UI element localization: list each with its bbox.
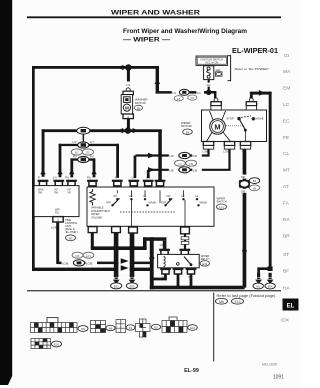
arrow right floating 2 [121,265,129,270]
arrow up on OR wire [242,246,248,252]
svg-text:WIPER AND WASHER: WIPER AND WASHER [111,9,201,16]
wire LG/B drop to switch [147,170,150,178]
svg-text:OR: OR [241,189,245,193]
svg-text:MEL169D: MEL169D [262,363,278,367]
wiper motor box [202,110,267,142]
svg-text:OFF: OFF [106,201,112,205]
wire LG/R from motor [136,149,209,155]
wire: L2 L/Y link [59,144,119,146]
wire B bus over motor [250,92,272,95]
washer motor bottom connector 2 [123,114,133,119]
grid F oval label [52,341,62,347]
inline connector marks on B/R wire [181,237,189,240]
wire: ACC vertical feed upper [156,66,159,93]
stop contact [237,117,240,120]
svg-text:OR: OR [241,175,245,179]
wire: PU left drop [70,158,73,177]
svg-text:E8: E8 [137,106,141,110]
label L/B left [169,167,179,172]
svg-text:GI: GI [284,53,289,59]
wire relay B down [177,274,180,287]
resistor zigzag variable volume [90,189,95,206]
wire: top feed bus [32,66,159,69]
wire: PU right drop [93,158,96,177]
twin ref ovals between [175,160,186,166]
ground arrow B right [267,273,274,284]
connector into TCU 3 [66,180,77,186]
switch group 1 contacts [106,190,156,226]
wire washer motor to lower bus [127,119,130,131]
wiper switch ref oval E15 [217,204,227,209]
svg-text:L/B: L/B [193,169,197,173]
node bus1 dot b [129,245,135,251]
wire relay OR down [190,274,193,287]
arrow right on LB line [148,167,155,172]
svg-text:LG: LG [127,83,131,87]
inline connector on OR wire [239,180,250,188]
label L/B right [192,167,202,172]
svg-text:VR: VR [68,191,72,194]
white gap between ground drops [119,253,130,274]
svg-text:STOP: STOP [226,117,234,121]
svg-text:OFF: OFF [161,201,167,205]
node: washer junction lower [125,127,131,133]
svg-text:PU: PU [73,155,77,159]
svg-text:M3: M3 [76,254,80,258]
node LG junction [206,90,212,96]
svg-text:HI: HI [196,194,199,198]
label L/R left [169,153,179,158]
dotted link motor to arm [226,125,243,127]
relay bottom connector 2 [173,268,184,274]
svg-text:M6: M6 [109,327,113,331]
svg-text:L/Y: L/Y [72,140,76,144]
motor ref oval E8 [183,129,193,134]
relay contact circle [177,263,180,266]
svg-text:L/B: L/B [169,169,173,173]
svg-text:PU: PU [90,155,94,159]
node bus1 dot a [113,245,119,251]
svg-text:M5: M5 [189,162,193,166]
wire relay LGB drop [163,241,167,249]
svg-text:Refer to “EL-POWER”.: Refer to “EL-POWER”. [235,67,271,71]
svg-text:M3: M3 [81,327,85,331]
svg-text:EM: EM [283,86,290,92]
grid E dark pins [170,321,174,327]
twin ref ovals below L2 [71,149,82,155]
motor bottom connector LG/R [203,142,213,146]
jog up from bus1 [143,237,147,250]
wire bus1 horizontal [91,246,147,250]
motor bottom connector LG/B [224,142,234,146]
link stub between L1 and L2 ovals [83,135,85,143]
svg-text:FA: FA [283,201,290,207]
ground ref oval a [111,283,122,289]
wire TCU LGB vertical [56,222,59,264]
arrow left on top bus [117,65,123,70]
svg-text:LC: LC [283,102,290,108]
svg-text:1091: 1091 [273,375,284,381]
move contact [252,117,255,120]
wiper motor M symbol [210,119,226,135]
twin ref ovals below LG bus [174,96,183,101]
grid C oval label [126,325,135,330]
pinout cross D [136,319,151,337]
motor brushes [210,111,226,121]
grid B oval label [106,325,115,330]
arrow right floating 1 [121,258,129,263]
wire V1 vertical [150,237,154,289]
ref ovals right of OR connector [249,178,259,184]
wire LG/B from motor [150,149,230,170]
svg-text:M6: M6 [219,300,224,304]
svg-text:CL: CL [283,151,289,157]
grid E oval label [188,325,198,331]
switch bottom connector a [112,227,121,233]
svg-text:E03: E03 [130,284,135,288]
switch bottom connector volume [88,227,97,233]
svg-text:M4: M4 [253,186,257,190]
label L/R right [192,153,202,158]
cross D dark pin [140,324,143,328]
wire: switch feed vertical lower [158,130,162,183]
svg-text:B: B [250,96,252,100]
time control unit box [34,186,79,217]
splice oval on PU link [78,156,89,162]
splice oval on LG bus [179,89,189,95]
arrow up wire2 [57,170,63,175]
svg-text:SWITCH: SWITCH [217,200,227,204]
motor bottom connector OR [240,142,250,146]
connector switch L/B [143,180,154,186]
wire B down right side [269,92,272,271]
arrow up wire3 [69,170,75,175]
TCU bottom connector 1 [53,217,63,222]
wire: washer motor drop [127,68,130,82]
wiper relay top connector L [159,249,170,255]
svg-text:L/R: L/R [193,154,197,158]
svg-text:— WIPER —: — WIPER — [123,37,171,44]
svg-text:E8: E8 [186,130,190,134]
svg-text:MOVE: MOVE [255,117,263,121]
svg-text:MOTOR: MOTOR [181,124,192,128]
arrow right on L1 [133,128,139,133]
connector switch ACC [155,180,166,186]
connector into TCU 2 [53,180,64,186]
pinout grid E [162,321,187,333]
label LG/B left on wire [62,261,74,265]
foldout note divider rule [213,293,214,362]
washer motor body [121,95,132,114]
wire: L1 left drop to WAS SW [42,129,45,177]
svg-text:LG: LG [207,83,211,87]
node B corner dot [268,266,273,271]
pinout grid E tab [169,317,177,321]
splice oval on LB [179,167,190,173]
svg-text:LO: LO [181,194,184,198]
washer motor ref oval E8 [134,105,142,110]
ground symbol b [129,273,136,284]
svg-text:M4: M4 [191,97,195,100]
switch group 1 dashed line [120,211,176,213]
relay coil [164,257,166,267]
wire: bottom ground bus left part2 [129,268,152,271]
svg-text:WASH: WASH [149,201,157,205]
connector switch L/Y [112,180,123,186]
arrow up on ACC vertical [155,78,161,84]
arrow left on L1 [117,128,123,133]
svg-text:E13: E13 [190,326,195,330]
splice oval on L1 [77,127,90,134]
bottom separator line [27,290,281,291]
ignition switch box [196,56,228,65]
node: washer junction top [125,64,131,70]
svg-text:MA: MA [283,69,291,75]
margin tab EL black box [283,299,299,311]
svg-text:VOLUME: VOLUME [91,215,102,219]
svg-text:Refer to last page (Foldout pa: Refer to last page (Foldout page). [217,294,277,298]
svg-text:M: M [214,123,220,132]
svg-text:EC: EC [283,119,290,125]
grid A dark pins [38,328,42,333]
svg-text:M: M [125,106,129,111]
wire: PU link [71,158,96,160]
wire: L2 left drop [59,144,62,178]
jog top horizontal to relay [143,237,166,241]
svg-text:“EL-TIME”): “EL-TIME”) [65,230,78,234]
svg-text:LG/B: LG/B [86,262,93,266]
svg-text:SW: SW [38,191,43,194]
svg-text:IDX: IDX [281,318,290,324]
arrow up on V1 [149,253,155,259]
foldout note connector oval E13 [232,298,244,304]
arm down wire [244,131,246,142]
svg-text:1: 1 [57,218,59,222]
connector into TCU 1 [38,180,49,186]
splice oval on LGB wire [73,260,84,266]
svg-text:AT: AT [283,184,289,190]
splice oval on L2 [78,142,89,148]
ground ref oval b [126,283,137,289]
switch bottom connector c [181,227,190,234]
svg-text:F: F [159,176,161,180]
svg-text:F2: F2 [178,162,182,166]
wire: distribution bus L1 [42,129,162,132]
svg-text:HA: HA [283,286,290,292]
label LG left [172,90,180,94]
wire ground drop b [130,233,135,277]
svg-text:RA: RA [283,217,290,223]
motor top connector L pin [214,98,218,102]
dashed to MOVE [241,116,251,118]
svg-text:L/Y: L/Y [115,176,119,180]
svg-text:B3: B3 [253,179,257,183]
bracket [228,56,231,81]
wire fuse down [208,80,210,83]
fuse ref box [215,72,222,76]
scan black edge strip [0,0,12,376]
svg-text:ST: ST [283,252,289,258]
relay bottom connector 3 [186,268,197,274]
label OR lower [240,189,249,193]
ground arrow B left [255,273,262,284]
svg-text:E04: E04 [268,285,273,289]
wire: L2 right drop to switch [116,144,119,178]
arrow up wire4 [91,170,97,175]
svg-text:FE: FE [283,135,289,141]
svg-text:P: P [38,176,40,180]
wire volume drop [91,233,94,249]
arrow up wire1 [40,170,46,175]
wire: bottom ground bus left [32,268,115,271]
svg-text:E15: E15 [219,205,224,209]
splice oval on LR [179,152,190,158]
svg-text:MT: MT [283,168,290,174]
switch group 2 contacts [160,190,207,226]
label OR upper [240,175,249,179]
svg-text:MOTOR: MOTOR [135,101,146,105]
svg-text:INT: INT [113,194,118,198]
svg-text:SW: SW [54,191,59,194]
svg-text:L/R: L/R [169,154,173,158]
svg-text:E19: E19 [202,262,207,266]
svg-text:BF: BF [283,269,289,275]
relay switch arm [184,257,191,265]
svg-text:RLY: RLY [55,211,60,214]
wire TCU LGB horizontal [57,262,152,265]
svg-text:L/Y: L/Y [90,140,94,144]
svg-text:BR: BR [283,234,290,240]
svg-text:EL-WIPER-01: EL-WIPER-01 [232,48,278,55]
svg-text:RELAY: RELAY [201,257,210,261]
svg-text:LG/B: LG/B [160,243,166,247]
arrow right on B bus [259,90,265,96]
svg-text:M1: M1 [256,285,260,289]
switch bottom connector b [129,227,138,233]
svg-text:E13: E13 [86,254,91,258]
svg-text:LO: LO [129,194,132,198]
wire LG bus left of junction [156,91,207,94]
grid A oval label [78,326,88,332]
svg-text:WASH: WASH [200,201,208,205]
motor top connector R pin [250,95,253,98]
pinout grid A tab [47,318,58,323]
svg-text:EL-99: EL-99 [184,368,199,374]
pinout grid C [116,320,126,333]
wire ground drop a [114,233,119,278]
wire B corner to left ground [259,269,269,276]
arrow right on LR line [148,153,155,158]
cross D oval label [151,324,160,329]
svg-text:LG: LG [197,91,201,95]
connector switch L/R [128,180,139,186]
wire switch c drop to relay [184,234,186,249]
svg-text:L/Y: L/Y [53,176,57,180]
grid B dark pin [96,325,101,329]
washer motor top connector [126,88,130,92]
wire OR from motor down [243,149,247,288]
ground oval M1 [253,283,263,289]
wire: left border bus [32,66,35,271]
svg-text:ACC or ON: ACC or ON [205,60,218,64]
svg-text:EL: EL [287,304,295,310]
wiper relay box [158,254,200,267]
svg-text:PU: PU [65,176,69,180]
connector switch volume [87,180,98,186]
svg-text:M3: M3 [69,236,73,240]
wire LG/R drop to switch [134,156,137,179]
TCU ref oval M3 [66,235,76,241]
svg-text:PU: PU [87,176,91,180]
wire LG bus right of junction [209,92,216,98]
svg-text:LG: LG [172,91,176,95]
pinout grid F row2 [31,339,51,349]
label LG right [196,90,204,94]
ground oval E04 [265,283,275,289]
svg-text:,: , [230,301,231,305]
svg-text:E19: E19 [54,343,59,347]
ground symbol a [113,273,120,284]
label LG/B right on wire [86,261,98,265]
wire relay LG down-left [152,274,166,279]
pinout grid B [91,321,106,333]
fuse box [204,66,214,80]
switch arm [240,120,246,130]
fuse element [207,67,210,70]
pinout grid A [31,323,78,333]
wiper relay top connector R [179,249,190,255]
svg-text:E13: E13 [234,300,240,304]
header rule [27,16,281,18]
svg-text:Front Wiper and Washer/Wiring: Front Wiper and Washer/Wiring Diagram [123,28,248,35]
twin ref ovals above LGB wire [72,252,83,258]
svg-text:E5: E5 [154,326,158,330]
svg-text:E02: E02 [114,284,119,288]
svg-text:INT: INT [167,194,172,198]
relay ref oval E19 [200,261,210,266]
svg-text:LG/B: LG/B [62,262,69,266]
combination switch box [87,187,214,226]
wire bottom ground bus2 [150,286,245,290]
foldout note connector oval M6 [216,298,228,304]
grid F dark pins [35,342,39,345]
relay bottom connector 1 [160,268,171,274]
